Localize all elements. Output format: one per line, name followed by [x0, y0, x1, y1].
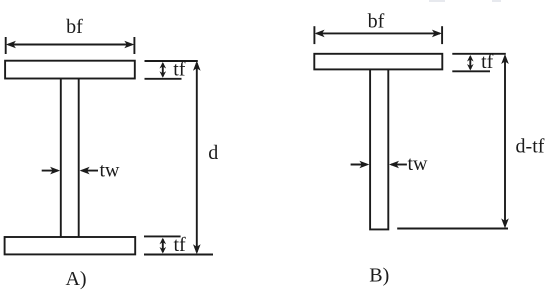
label tw (section A): [100, 160, 121, 182]
label A): [65, 268, 86, 290]
svg-text:tf: tf: [481, 51, 494, 73]
svg-text:tf: tf: [173, 59, 186, 81]
dimension line bf (section A): [6, 41, 134, 49]
label tf (section B): [481, 51, 494, 73]
web (section B): [370, 69, 388, 229]
extension tick left (A bf): [5, 37, 7, 54]
svg-text:tf: tf: [173, 234, 186, 256]
svg-text:d-tf: d-tf: [516, 135, 545, 157]
label d: [208, 142, 218, 164]
tw arrow left (section A): [42, 167, 60, 175]
svg-text:tw: tw: [408, 153, 429, 175]
label tf bottom (section A): [173, 234, 186, 256]
tf bottom extension tick upper (section A): [144, 235, 181, 237]
extension tick right (A bf): [133, 37, 135, 54]
web right line (section A): [78, 79, 80, 238]
tf double arrow bottom (section A): [160, 238, 167, 254]
extension tick right (B bf): [441, 26, 443, 44]
tf bottom extension tick lower (section A): [144, 254, 213, 256]
tw arrow left (section B): [351, 161, 370, 169]
tf extension tick lower (section B): [452, 70, 490, 72]
web left line (section A): [60, 79, 62, 238]
baseline extension (section B): [397, 228, 508, 230]
label bf (section B): [368, 11, 385, 33]
label bf (section A): [66, 16, 83, 38]
top edge artifact 2: [492, 0, 501, 2]
label tw (section B): [408, 153, 429, 175]
dimension line d (section A): [193, 61, 201, 255]
label B): [369, 265, 389, 287]
svg-text:bf: bf: [66, 16, 83, 38]
label d-tf: [516, 135, 545, 157]
dimension line bf (section B): [315, 30, 442, 38]
svg-text:tw: tw: [100, 160, 121, 182]
svg-text:A): A): [65, 268, 86, 290]
bottom flange (section A): [5, 237, 136, 254]
top edge artifact 1: [429, 0, 445, 2]
tf double arrow (section B): [467, 55, 474, 71]
tf top extension tick upper (section A): [145, 60, 198, 62]
tf extension tick upper (section B): [452, 53, 506, 55]
dimension line d-tf (section B): [501, 54, 509, 228]
label tf top (section A): [173, 59, 186, 81]
tf double arrow top (section A): [160, 62, 167, 78]
top flange (section A): [5, 61, 135, 79]
tw arrow right (section B): [389, 161, 407, 169]
tf top extension tick lower (section A): [145, 78, 182, 80]
svg-text:B): B): [369, 265, 389, 287]
tw arrow right (section A): [80, 167, 98, 175]
flange (section B): [314, 54, 442, 70]
svg-text:bf: bf: [368, 11, 385, 33]
extension tick left (B bf): [313, 26, 315, 44]
svg-text:d: d: [208, 142, 218, 164]
